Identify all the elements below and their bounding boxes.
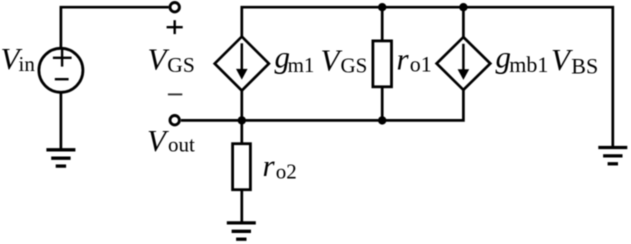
junction dot (top rail / gmb1) bbox=[459, 3, 467, 11]
wire top rail (down right side to ground) bbox=[242, 7, 613, 146]
source Vin bbox=[39, 48, 83, 92]
wire Vin bottom bbox=[60, 92, 63, 149]
svg-text:GS: GS bbox=[341, 54, 368, 78]
current source gm1VGS (diamond) bbox=[215, 37, 269, 91]
label Vin bbox=[1, 41, 36, 76]
svg-text:r: r bbox=[397, 42, 410, 77]
svg-text:o2: o2 bbox=[276, 159, 297, 183]
wire ro2 to ground bbox=[240, 190, 243, 223]
label ro1 bbox=[397, 42, 432, 77]
terminal gate (open circle) bbox=[170, 3, 179, 12]
plus sign (VGS polarity) bbox=[167, 20, 183, 34]
ground (right side) bbox=[598, 148, 627, 164]
junction dot (top rail / ro1) bbox=[378, 3, 386, 11]
wire gm1 bottom through node to ro2 bbox=[240, 91, 243, 145]
svg-text:o1: o1 bbox=[410, 52, 432, 77]
svg-text:BS: BS bbox=[571, 54, 598, 79]
svg-text:m1: m1 bbox=[288, 53, 315, 77]
resistor ro2 bbox=[233, 144, 251, 190]
svg-text:r: r bbox=[263, 148, 276, 183]
current source gmb1VBS (diamond) bbox=[437, 37, 491, 90]
junction dot (Vout node / gm1) bbox=[238, 116, 246, 124]
wire top rail to ro1 bbox=[381, 7, 384, 40]
junction dot (bottom node / ro1) bbox=[378, 116, 386, 124]
svg-text:V: V bbox=[321, 43, 343, 78]
wire ro1 to bottom node bbox=[381, 87, 384, 121]
wire top rail to gmb1 bbox=[462, 7, 465, 37]
terminal Vout (open circle) bbox=[170, 116, 179, 125]
resistor ro1 bbox=[373, 41, 392, 87]
ground (under Vin) bbox=[46, 150, 75, 166]
minus sign (VGS polarity) bbox=[168, 93, 182, 95]
label ro2 bbox=[263, 148, 297, 183]
svg-text:mb1: mb1 bbox=[509, 52, 548, 77]
label VGS bbox=[148, 42, 195, 78]
svg-text:in: in bbox=[19, 52, 36, 76]
wire bottom node (Vout rail, turns up to gmb1 source) bbox=[181, 90, 463, 121]
svg-text:GS: GS bbox=[167, 53, 194, 77]
svg-text:out: out bbox=[168, 133, 195, 157]
svg-text:V: V bbox=[148, 42, 170, 77]
svg-text:V: V bbox=[551, 42, 573, 77]
label Vout bbox=[147, 123, 195, 158]
ground (under ro2) bbox=[227, 223, 256, 239]
wire Vin top (to gate terminal) bbox=[61, 7, 169, 48]
label gm1VGS bbox=[275, 40, 368, 78]
svg-text:V: V bbox=[147, 123, 169, 158]
label gmb1VBS bbox=[496, 40, 599, 79]
